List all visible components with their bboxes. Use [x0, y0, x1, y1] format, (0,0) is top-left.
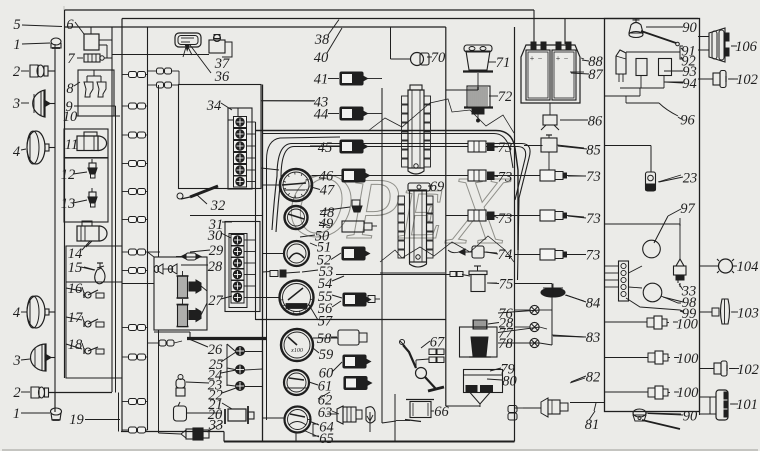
svg-text:−: − [537, 54, 542, 63]
svg-text:4: 4 [13, 305, 20, 321]
svg-text:+: + [555, 54, 560, 63]
svg-text:97: 97 [680, 201, 695, 217]
svg-text:x100: x100 [290, 348, 303, 354]
svg-text:71: 71 [496, 55, 511, 71]
svg-text:58: 58 [317, 331, 332, 347]
svg-text:40: 40 [314, 50, 329, 66]
svg-text:106: 106 [735, 39, 758, 55]
svg-text:11: 11 [65, 137, 78, 153]
svg-text:75: 75 [499, 276, 514, 292]
svg-text:81: 81 [585, 417, 600, 433]
svg-text:6: 6 [66, 17, 74, 33]
svg-text:73: 73 [498, 140, 513, 156]
svg-text:57: 57 [318, 313, 333, 329]
svg-text:96: 96 [680, 112, 695, 128]
svg-text:12: 12 [61, 167, 76, 183]
svg-text:73: 73 [586, 169, 601, 185]
svg-text:104: 104 [737, 259, 759, 275]
svg-text:82: 82 [586, 369, 601, 385]
svg-text:100: 100 [676, 316, 699, 332]
svg-text:101: 101 [736, 397, 758, 413]
svg-text:90: 90 [682, 20, 697, 36]
svg-text:34: 34 [206, 98, 222, 114]
svg-text:90: 90 [683, 408, 698, 424]
svg-text:10: 10 [63, 109, 78, 125]
svg-text:−: − [563, 54, 568, 63]
svg-text:100: 100 [677, 385, 700, 401]
svg-text:26: 26 [208, 342, 223, 358]
svg-text:2: 2 [13, 385, 20, 401]
svg-text:66: 66 [434, 404, 449, 420]
svg-text:102: 102 [737, 362, 759, 378]
svg-text:100: 100 [677, 351, 700, 367]
svg-text:78: 78 [498, 336, 513, 352]
svg-text:73: 73 [498, 211, 513, 227]
svg-text:+: + [529, 54, 534, 63]
svg-text:27: 27 [208, 293, 223, 309]
svg-text:1: 1 [13, 37, 20, 53]
svg-text:73: 73 [586, 247, 601, 263]
svg-text:19: 19 [69, 412, 84, 428]
svg-text:29: 29 [209, 243, 224, 259]
svg-text:5: 5 [13, 17, 20, 33]
svg-text:32: 32 [210, 198, 226, 214]
svg-text:2: 2 [13, 64, 20, 80]
svg-text:13: 13 [61, 196, 76, 212]
svg-text:94: 94 [682, 76, 697, 92]
svg-text:41: 41 [314, 71, 329, 87]
svg-text:59: 59 [319, 347, 334, 363]
svg-text:16: 16 [68, 281, 83, 297]
svg-text:84: 84 [586, 295, 601, 311]
svg-text:3: 3 [12, 96, 20, 112]
svg-text:33: 33 [208, 417, 224, 433]
svg-text:38: 38 [314, 32, 330, 48]
svg-text:86: 86 [588, 113, 603, 129]
svg-text:17: 17 [68, 310, 83, 326]
svg-text:36: 36 [214, 69, 230, 85]
svg-text:47: 47 [320, 182, 335, 198]
svg-text:69: 69 [430, 179, 445, 195]
svg-text:74: 74 [498, 247, 513, 263]
svg-text:70: 70 [431, 50, 446, 66]
svg-text:44: 44 [314, 106, 329, 122]
svg-text:73: 73 [498, 169, 513, 185]
svg-text:72: 72 [498, 89, 513, 105]
svg-text:28: 28 [208, 259, 223, 275]
svg-text:87: 87 [588, 67, 603, 83]
svg-text:7: 7 [67, 51, 75, 67]
svg-text:4: 4 [13, 144, 20, 160]
svg-text:102: 102 [736, 72, 758, 88]
svg-text:3: 3 [12, 353, 20, 369]
svg-text:45: 45 [318, 140, 333, 156]
svg-text:85: 85 [586, 142, 601, 158]
svg-text:83: 83 [586, 330, 601, 346]
svg-text:65: 65 [319, 431, 334, 447]
svg-text:15: 15 [68, 260, 83, 276]
svg-text:30: 30 [207, 228, 223, 244]
svg-text:67: 67 [430, 334, 445, 350]
svg-text:1: 1 [13, 406, 20, 422]
svg-text:23: 23 [683, 170, 698, 186]
svg-text:73: 73 [586, 211, 601, 227]
svg-text:18: 18 [68, 337, 83, 353]
svg-text:8: 8 [66, 81, 74, 97]
svg-text:80: 80 [502, 373, 517, 389]
svg-text:103: 103 [737, 305, 759, 321]
